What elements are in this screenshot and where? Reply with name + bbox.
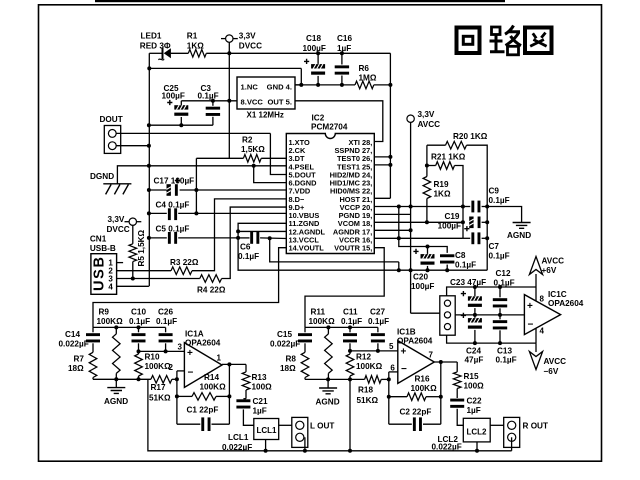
node junction C10 bottom: [137, 349, 141, 353]
node junction TEST1: [388, 163, 392, 167]
svg-text:100KΩ: 100KΩ: [200, 383, 227, 392]
node junction AGNDL-C6left: [236, 236, 240, 240]
svg-text:C11: C11: [343, 308, 358, 317]
wire USB pin4 to bus: [116, 285, 149, 287]
svg-text:100KΩ: 100KΩ: [145, 362, 172, 371]
title kanji 回 (kai): [457, 28, 480, 54]
svg-text:R19: R19: [434, 180, 449, 189]
svg-text:18Ω: 18Ω: [68, 364, 84, 373]
svg-text:C6: C6: [240, 243, 251, 252]
node junction DVCC-R1: [227, 51, 231, 55]
svg-text:+: +: [527, 301, 533, 312]
svg-text:R2: R2: [242, 136, 253, 145]
svg-text:C26: C26: [158, 308, 173, 317]
node junction v1b-rail: [397, 268, 401, 272]
svg-text:R9: R9: [99, 308, 110, 317]
node junction R9 bottom: [114, 377, 118, 381]
capacitor C18 electrolytic: [317, 53, 319, 64]
title kanji 路 (ro): [490, 26, 522, 55]
wire R6 right to top rail: [374, 84, 391, 86]
node junction R5-D+: [131, 277, 135, 281]
wire right filter bottom rail: [305, 378, 365, 380]
node junction C20 bottom: [426, 268, 430, 272]
svg-text:R11: R11: [311, 308, 326, 317]
svg-text:DVCC: DVCC: [239, 42, 262, 51]
svg-text:R17: R17: [151, 383, 166, 392]
svg-text:C1 22pF: C1 22pF: [187, 406, 219, 415]
svg-text:1KΩ: 1KΩ: [187, 41, 204, 50]
wire VCCL branch down-right: [270, 238, 399, 262]
node junction C3 top: [211, 99, 215, 103]
svg-text:DGND: DGND: [90, 172, 114, 181]
capacitor C20 electrolytic: [427, 247, 429, 254]
wire AGNDL down to C6 line: [237, 231, 239, 237]
wire TEST0 stub: [374, 156, 390, 158]
svg-text:RED 3Φ: RED 3Φ: [140, 41, 171, 50]
node junction C13 bottom: [498, 341, 502, 345]
svg-text:C23 47µF: C23 47µF: [450, 278, 486, 287]
node junction R10 bottom: [137, 377, 141, 381]
svg-text:R15: R15: [464, 372, 479, 381]
svg-text:AVCC: AVCC: [542, 257, 565, 266]
node junction bus-PSEL: [147, 164, 151, 168]
svg-text:AVCC: AVCC: [544, 357, 567, 366]
wire VOUTL to left filter: [93, 248, 286, 328]
svg-text:100µF: 100µF: [303, 44, 326, 53]
wire TEST1 stub: [374, 164, 390, 166]
svg-text:LCL1: LCL1: [228, 433, 249, 442]
node junction R12 bottom: [348, 377, 352, 381]
node junction gndv-rail: [409, 268, 413, 272]
svg-text:51KΩ: 51KΩ: [149, 394, 171, 403]
svg-text:+6V: +6V: [542, 266, 557, 275]
svg-text:PCM2704: PCM2704: [311, 123, 348, 132]
svg-text:IC2: IC2: [312, 114, 325, 123]
svg-text:R6: R6: [359, 64, 370, 73]
resistor R19 vertical: [426, 166, 428, 177]
svg-text:IC1A: IC1A: [185, 330, 204, 339]
power symbol AVCC -6V arrow: [535, 343, 537, 352]
svg-text:AVCC: AVCC: [418, 120, 441, 129]
resistor R3: [116, 270, 171, 272]
node junction C19 right: [485, 220, 489, 224]
svg-text:LED1: LED1: [141, 31, 162, 40]
svg-text:C4 0.1µF: C4 0.1µF: [156, 201, 190, 210]
svg-text:C10: C10: [131, 308, 146, 317]
wire -input IC1B: [389, 371, 398, 373]
svg-text:C19: C19: [444, 212, 459, 221]
svg-text:3,3V: 3,3V: [108, 215, 125, 224]
svg-text:CN1: CN1: [90, 235, 107, 244]
node junction C16 top: [340, 51, 344, 55]
wire VCCR row: [374, 237, 463, 239]
node junction R16 left: [387, 395, 391, 399]
resistor R4: [116, 278, 200, 280]
connector L OUT: [292, 417, 308, 447]
node junction C12-C13 mid: [498, 313, 502, 317]
node junction R11 top: [326, 325, 330, 329]
wire v1b VCCL branch to rail: [398, 262, 400, 270]
svg-text:DOUT: DOUT: [100, 115, 123, 124]
wire branch to 6.DGND: [254, 166, 287, 183]
svg-text:100Ω: 100Ω: [464, 382, 485, 391]
wire VCOM row: [374, 221, 463, 223]
resistor R15 vertical: [456, 362, 458, 372]
capacitor C16: [341, 53, 343, 64]
node junction out-fb IC1B: [439, 360, 443, 364]
node junction R16 right: [439, 395, 443, 399]
resistor R6: [355, 81, 374, 89]
node junction C4-VBUS: [194, 211, 198, 215]
capacitor C26: [165, 327, 167, 332]
node junction R18-fb: [387, 377, 391, 381]
node junction PSEL-DGND branch: [252, 164, 256, 168]
svg-text:1: 1: [217, 354, 222, 363]
wire X1 OUT5 to XTI: [295, 101, 383, 142]
svg-text:100µF: 100µF: [162, 91, 185, 100]
wire gnd line y85: [295, 84, 301, 86]
resistor R16: [389, 396, 407, 398]
node junction bus-gnd68: [147, 66, 151, 70]
svg-text:R13: R13: [252, 373, 267, 382]
svg-text:C13: C13: [497, 347, 512, 356]
svg-text:−: −: [401, 364, 407, 375]
node junction R11 bottom: [326, 377, 330, 381]
node junction C18 bottom: [316, 83, 320, 87]
node junction R17-fb: [175, 377, 179, 381]
resistor R8 vertical: [301, 352, 309, 377]
node junction C9 left: [461, 205, 465, 209]
wire VBUS row: [196, 212, 286, 214]
wire left filter top rail: [93, 326, 166, 328]
svg-text:C24: C24: [466, 347, 481, 356]
wire +input IC1A: [139, 350, 185, 352]
wire AGND branch right: [487, 207, 521, 223]
svg-text:R3 22Ω: R3 22Ω: [170, 258, 199, 267]
svg-text:L OUT: L OUT: [310, 422, 334, 431]
svg-text:−: −: [528, 320, 534, 331]
wire R2 left vertical: [195, 158, 197, 213]
node junction LCL2-gnd: [475, 449, 479, 453]
wire VOUTR to right filter: [305, 248, 384, 328]
node junction AGNDR-gnd: [409, 228, 413, 232]
wire LOUT ground riser: [304, 437, 306, 451]
svg-text:5: 5: [389, 342, 394, 351]
node junction bus-C5: [147, 236, 151, 240]
node junction LOUT-gnd: [303, 449, 307, 453]
svg-text:1.NC: 1.NC: [241, 83, 259, 92]
capacitor C4: [149, 212, 167, 214]
node junction R19-VCOM: [425, 220, 429, 224]
node junction out-fb: [227, 362, 231, 366]
svg-text:OPA2604: OPA2604: [548, 299, 584, 308]
svg-text:R OUT: R OUT: [523, 422, 548, 431]
wire DOUT pin1 to 5.DOUT: [116, 132, 270, 134]
svg-text:C15: C15: [277, 330, 292, 339]
svg-text:0.1µF: 0.1µF: [238, 252, 259, 261]
wire left bus vertical: [148, 53, 150, 286]
svg-text:4: 4: [108, 282, 113, 291]
resistor R12 vertical: [349, 351, 351, 354]
svg-text:C27: C27: [370, 308, 385, 317]
capacitor C17 electrolytic: [148, 189, 150, 191]
wire output ground bus: [148, 379, 512, 451]
node junction R6 right: [388, 83, 392, 87]
wire DVCC top rail y53: [149, 52, 162, 54]
wire AVCC ground drop corner to power connector: [411, 312, 440, 314]
connector power 3pin: [440, 296, 455, 335]
svg-text:18Ω: 18Ω: [280, 364, 296, 373]
node junction C11 bottom: [348, 349, 352, 353]
resistor R1: [188, 50, 206, 58]
svg-text:0.1µF: 0.1µF: [455, 261, 476, 270]
wire ground line y125: [149, 124, 213, 126]
svg-text:0.1µF: 0.1µF: [489, 252, 510, 261]
node junction C18 top: [316, 51, 320, 55]
top scan artifact line: [95, 0, 505, 2]
svg-text:100KΩ: 100KΩ: [97, 317, 124, 326]
svg-text:C2 22pF: C2 22pF: [400, 408, 432, 417]
op-amp IC1B OPA2604: [398, 341, 435, 384]
wire DGND to PSEL row: [117, 166, 286, 184]
wire USB pin1 stub: [116, 262, 123, 264]
svg-text:DVCC: DVCC: [107, 225, 130, 234]
svg-text:IC1B: IC1B: [397, 328, 416, 337]
capacitor C2 22pF: [389, 423, 412, 425]
svg-text:AGND: AGND: [316, 398, 340, 407]
node junction bus-gnd125: [147, 123, 151, 127]
node junction DVCC-VCC: [227, 99, 231, 103]
wire VCC line y100.8 to X1: [181, 100, 237, 102]
svg-text:USB-B: USB-B: [90, 244, 116, 253]
filter module LCL2: [463, 418, 490, 442]
node junction VCCP-v1: [397, 205, 401, 209]
svg-text:−: −: [188, 368, 194, 379]
svg-text:OPA2604: OPA2604: [185, 339, 221, 348]
wire LCL1 bottom drop: [265, 440, 267, 451]
wire IC1C pin8: [535, 287, 537, 301]
capacitor C9: [463, 206, 470, 208]
svg-text:C5 0.1µF: C5 0.1µF: [156, 225, 190, 234]
IC U-IC2 PCM2704 body: [286, 134, 374, 254]
svg-text:OUT 5.: OUT 5.: [268, 98, 292, 107]
svg-text:VOUTR 15,: VOUTR 15,: [334, 244, 372, 253]
svg-text:1,5KΩ: 1,5KΩ: [241, 145, 265, 154]
svg-text:R20 1KΩ: R20 1KΩ: [453, 132, 488, 141]
capacitor C12: [499, 287, 501, 297]
svg-text:USB: USB: [92, 257, 108, 291]
op-amp IC1C OPA2604: [524, 295, 560, 335]
node junction C25 bottom: [179, 123, 183, 127]
wire feedback right vertical IC1B: [440, 362, 442, 424]
node junction C20 top: [426, 245, 430, 249]
wire left filter bottom rail: [93, 378, 151, 380]
svg-text:+: +: [401, 347, 407, 358]
capacitor C25 electrolytic: [180, 101, 182, 105]
node junction DOUT2-bus: [147, 144, 151, 148]
svg-text:7: 7: [429, 351, 434, 360]
svg-text:R21 1KΩ: R21 1KΩ: [431, 153, 466, 162]
node junction TEST0: [388, 155, 392, 159]
connector R OUT: [504, 417, 520, 447]
svg-text:+: +: [187, 348, 193, 359]
wire VCCP row: [374, 206, 463, 208]
wire feedback left vertical IC1B: [388, 372, 390, 424]
capacitor C11: [349, 327, 351, 332]
node junction GND4: [299, 83, 303, 87]
node junction VCCR-v1: [397, 236, 401, 240]
svg-text:GND 4.: GND 4.: [267, 83, 292, 92]
wire TEST vertical x390: [389, 53, 391, 198]
svg-text:0.1µF: 0.1µF: [198, 91, 219, 100]
svg-text:C8: C8: [455, 251, 466, 260]
wire ground rail lower: [238, 238, 487, 270]
svg-text:LCL1: LCL1: [257, 426, 278, 435]
svg-text:IC1C: IC1C: [548, 290, 567, 299]
node junction C12 top: [498, 285, 502, 289]
svg-text:2: 2: [169, 363, 174, 372]
wire PGND row: [374, 213, 410, 215]
svg-text:LCL2: LCL2: [467, 428, 488, 437]
capacitor C1 22pF: [177, 423, 200, 425]
svg-text:R18: R18: [358, 386, 373, 395]
node junction C26 bottom: [164, 349, 168, 353]
op-amp IC1A OPA2604: [184, 343, 222, 388]
wire ZGND row: [238, 223, 286, 231]
svg-text:C18: C18: [306, 34, 321, 43]
wire right filter top rail: [305, 326, 378, 328]
oscillator module X1 12MHz: [237, 77, 295, 109]
capacitor C21: [236, 399, 250, 402]
resistor R14: [177, 395, 192, 397]
wire -input IC1A: [177, 370, 185, 372]
svg-text:1KΩ: 1KΩ: [434, 190, 451, 199]
wire R12 ground descender: [349, 379, 351, 450]
capacitor C22: [450, 399, 464, 402]
wire feedback left vertical: [176, 371, 178, 424]
svg-text:R8: R8: [286, 355, 297, 364]
svg-text:X1 12MHz: X1 12MHz: [247, 111, 284, 120]
capacitor C6: [250, 232, 253, 244]
capacitor C10: [138, 327, 140, 332]
svg-text:OPA2604: OPA2604: [397, 337, 433, 346]
svg-text:1µF: 1µF: [337, 44, 351, 53]
svg-text:1µF: 1µF: [253, 407, 267, 416]
svg-text:100Ω: 100Ω: [252, 383, 273, 392]
svg-text:0.022µF: 0.022µF: [59, 340, 89, 349]
svg-text:100µF: 100µF: [411, 282, 434, 291]
wire X1 GND4 stub: [295, 84, 301, 86]
capacitor C3: [212, 101, 214, 106]
ground symbol AGND right: [513, 223, 531, 229]
wire AGNDR row: [374, 229, 410, 231]
connector DOUT: [104, 126, 120, 154]
wire output IC1B: [434, 361, 457, 363]
svg-text:1µF: 1µF: [467, 406, 481, 415]
svg-text:−6V: −6V: [544, 367, 559, 376]
svg-text:3,3V: 3,3V: [418, 110, 435, 119]
node junction R14 left: [175, 394, 179, 398]
svg-text:3,3V: 3,3V: [239, 32, 256, 41]
svg-text:8: 8: [540, 295, 545, 304]
capacitor C5: [149, 237, 167, 239]
LED LED1: [158, 48, 171, 67]
resistor R9 vertical: [115, 327, 117, 334]
resistor R10 vertical: [138, 351, 140, 354]
IC2 pin name rows: [289, 138, 373, 253]
wire LCL2 bottom drop: [476, 442, 478, 451]
filter module LCL1: [254, 419, 279, 440]
wire DOUT pin2 to bus: [116, 145, 149, 147]
wire gnd68 corner down to GND4: [300, 68, 302, 85]
svg-text:C12: C12: [496, 269, 511, 278]
wire v1 VCCP-VCCR-captops: [399, 207, 428, 247]
wire LCL1 to LOUT: [279, 424, 292, 426]
svg-text:0.1µF: 0.1µF: [489, 196, 510, 205]
node junction C27 bottom: [376, 349, 380, 353]
svg-text:C7: C7: [489, 242, 500, 251]
title kanji 図 (zu): [525, 28, 552, 54]
resistor R2: [196, 157, 243, 159]
node junction C10 top: [137, 325, 141, 329]
resistor R21: [426, 145, 428, 165]
svg-text:0.1µF: 0.1µF: [341, 317, 362, 326]
svg-text:R16: R16: [415, 375, 430, 384]
wire cap column left x463: [462, 207, 464, 239]
capacitor C19 electrolytic: [469, 217, 473, 229]
wire +input IC1B: [350, 350, 398, 352]
capacitor C23 electrolytic: [474, 287, 476, 296]
svg-text:R7: R7: [74, 355, 85, 364]
capacitor C13: [499, 315, 501, 319]
wire ROUT ground riser: [511, 437, 513, 451]
wire output IC1A: [222, 363, 246, 365]
wire top rail +6V: [447, 287, 536, 296]
svg-text:100µF: 100µF: [438, 222, 461, 231]
resistor R20: [427, 144, 446, 146]
node junction descender-gnd: [348, 449, 352, 453]
ground symbol DGND: [103, 184, 131, 195]
resistor R17: [151, 376, 172, 384]
wire middle rail GND: [455, 314, 524, 316]
node junction C23-C24 mid: [473, 313, 477, 317]
svg-text:0.1µF: 0.1µF: [129, 317, 150, 326]
wire feedback right vertical: [228, 364, 230, 424]
svg-text:C17 100µF: C17 100µF: [154, 177, 195, 186]
capacitor C27: [377, 327, 379, 332]
svg-text:0.1µF: 0.1µF: [494, 279, 515, 288]
node junction bus-C4: [147, 211, 151, 215]
node junction C11 top: [348, 325, 352, 329]
svg-text:51KΩ: 51KΩ: [357, 396, 379, 405]
node junction C23 top: [473, 285, 477, 289]
wire bottom rail -6V: [447, 335, 536, 343]
capacitor C14: [92, 327, 94, 332]
svg-text:R4 22Ω: R4 22Ω: [197, 286, 226, 295]
power symbol AVCC +6V arrow: [535, 274, 537, 287]
svg-text:0.1µF: 0.1µF: [496, 356, 517, 365]
node junction VCCP-AVCC: [409, 205, 413, 209]
svg-text:14.VOUTL: 14.VOUTL: [289, 244, 325, 253]
node junction ZGND-AGNDL: [236, 229, 240, 233]
power symbol 3.3V DVCC top: [226, 35, 233, 42]
resistor R7 vertical: [89, 352, 97, 377]
ground symbol AGND left filter: [115, 379, 117, 387]
node junction C6right-VCCL: [268, 236, 272, 240]
power symbol 3.3V AVCC: [407, 115, 414, 122]
svg-text:AGND: AGND: [507, 231, 531, 240]
wire LCL2 to ROUT: [490, 424, 504, 426]
